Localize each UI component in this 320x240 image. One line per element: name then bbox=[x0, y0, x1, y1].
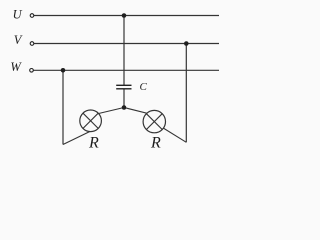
lamp R2 cross bbox=[146, 114, 162, 130]
wire junction to right lamp bbox=[124, 108, 158, 117]
wire corner to left lamp bbox=[63, 129, 95, 145]
lamp R1 circle bbox=[80, 110, 102, 132]
terminal W bbox=[30, 69, 34, 73]
wire V down right side bbox=[185, 44, 187, 143]
lamp R2 circle bbox=[143, 110, 165, 132]
svg-text:W: W bbox=[10, 60, 22, 74]
svg-text:R: R bbox=[150, 135, 161, 152]
junction dot below capacitor bbox=[122, 105, 127, 110]
phase line U wire bbox=[34, 15, 219, 17]
junction dot on W bbox=[61, 68, 66, 73]
terminal V bbox=[30, 42, 34, 46]
phase line V wire bbox=[34, 43, 219, 45]
wire from U to capacitor bbox=[123, 16, 125, 86]
capacitor C plates bbox=[116, 84, 131, 86]
wire capacitor to junction bbox=[123, 89, 125, 108]
wire junction to left lamp bbox=[88, 108, 124, 117]
svg-text:R: R bbox=[88, 135, 99, 152]
svg-text:U: U bbox=[13, 8, 23, 22]
lamp R1 cross bbox=[83, 113, 98, 128]
svg-text:V: V bbox=[14, 33, 23, 47]
junction dot on U bbox=[122, 13, 127, 18]
wire corner to right lamp bbox=[160, 126, 186, 142]
junction dot on V bbox=[184, 41, 189, 46]
svg-text:C: C bbox=[140, 81, 148, 93]
terminal U bbox=[30, 14, 34, 18]
phase line W wire bbox=[34, 69, 220, 71]
wire W down left side bbox=[62, 70, 64, 144]
